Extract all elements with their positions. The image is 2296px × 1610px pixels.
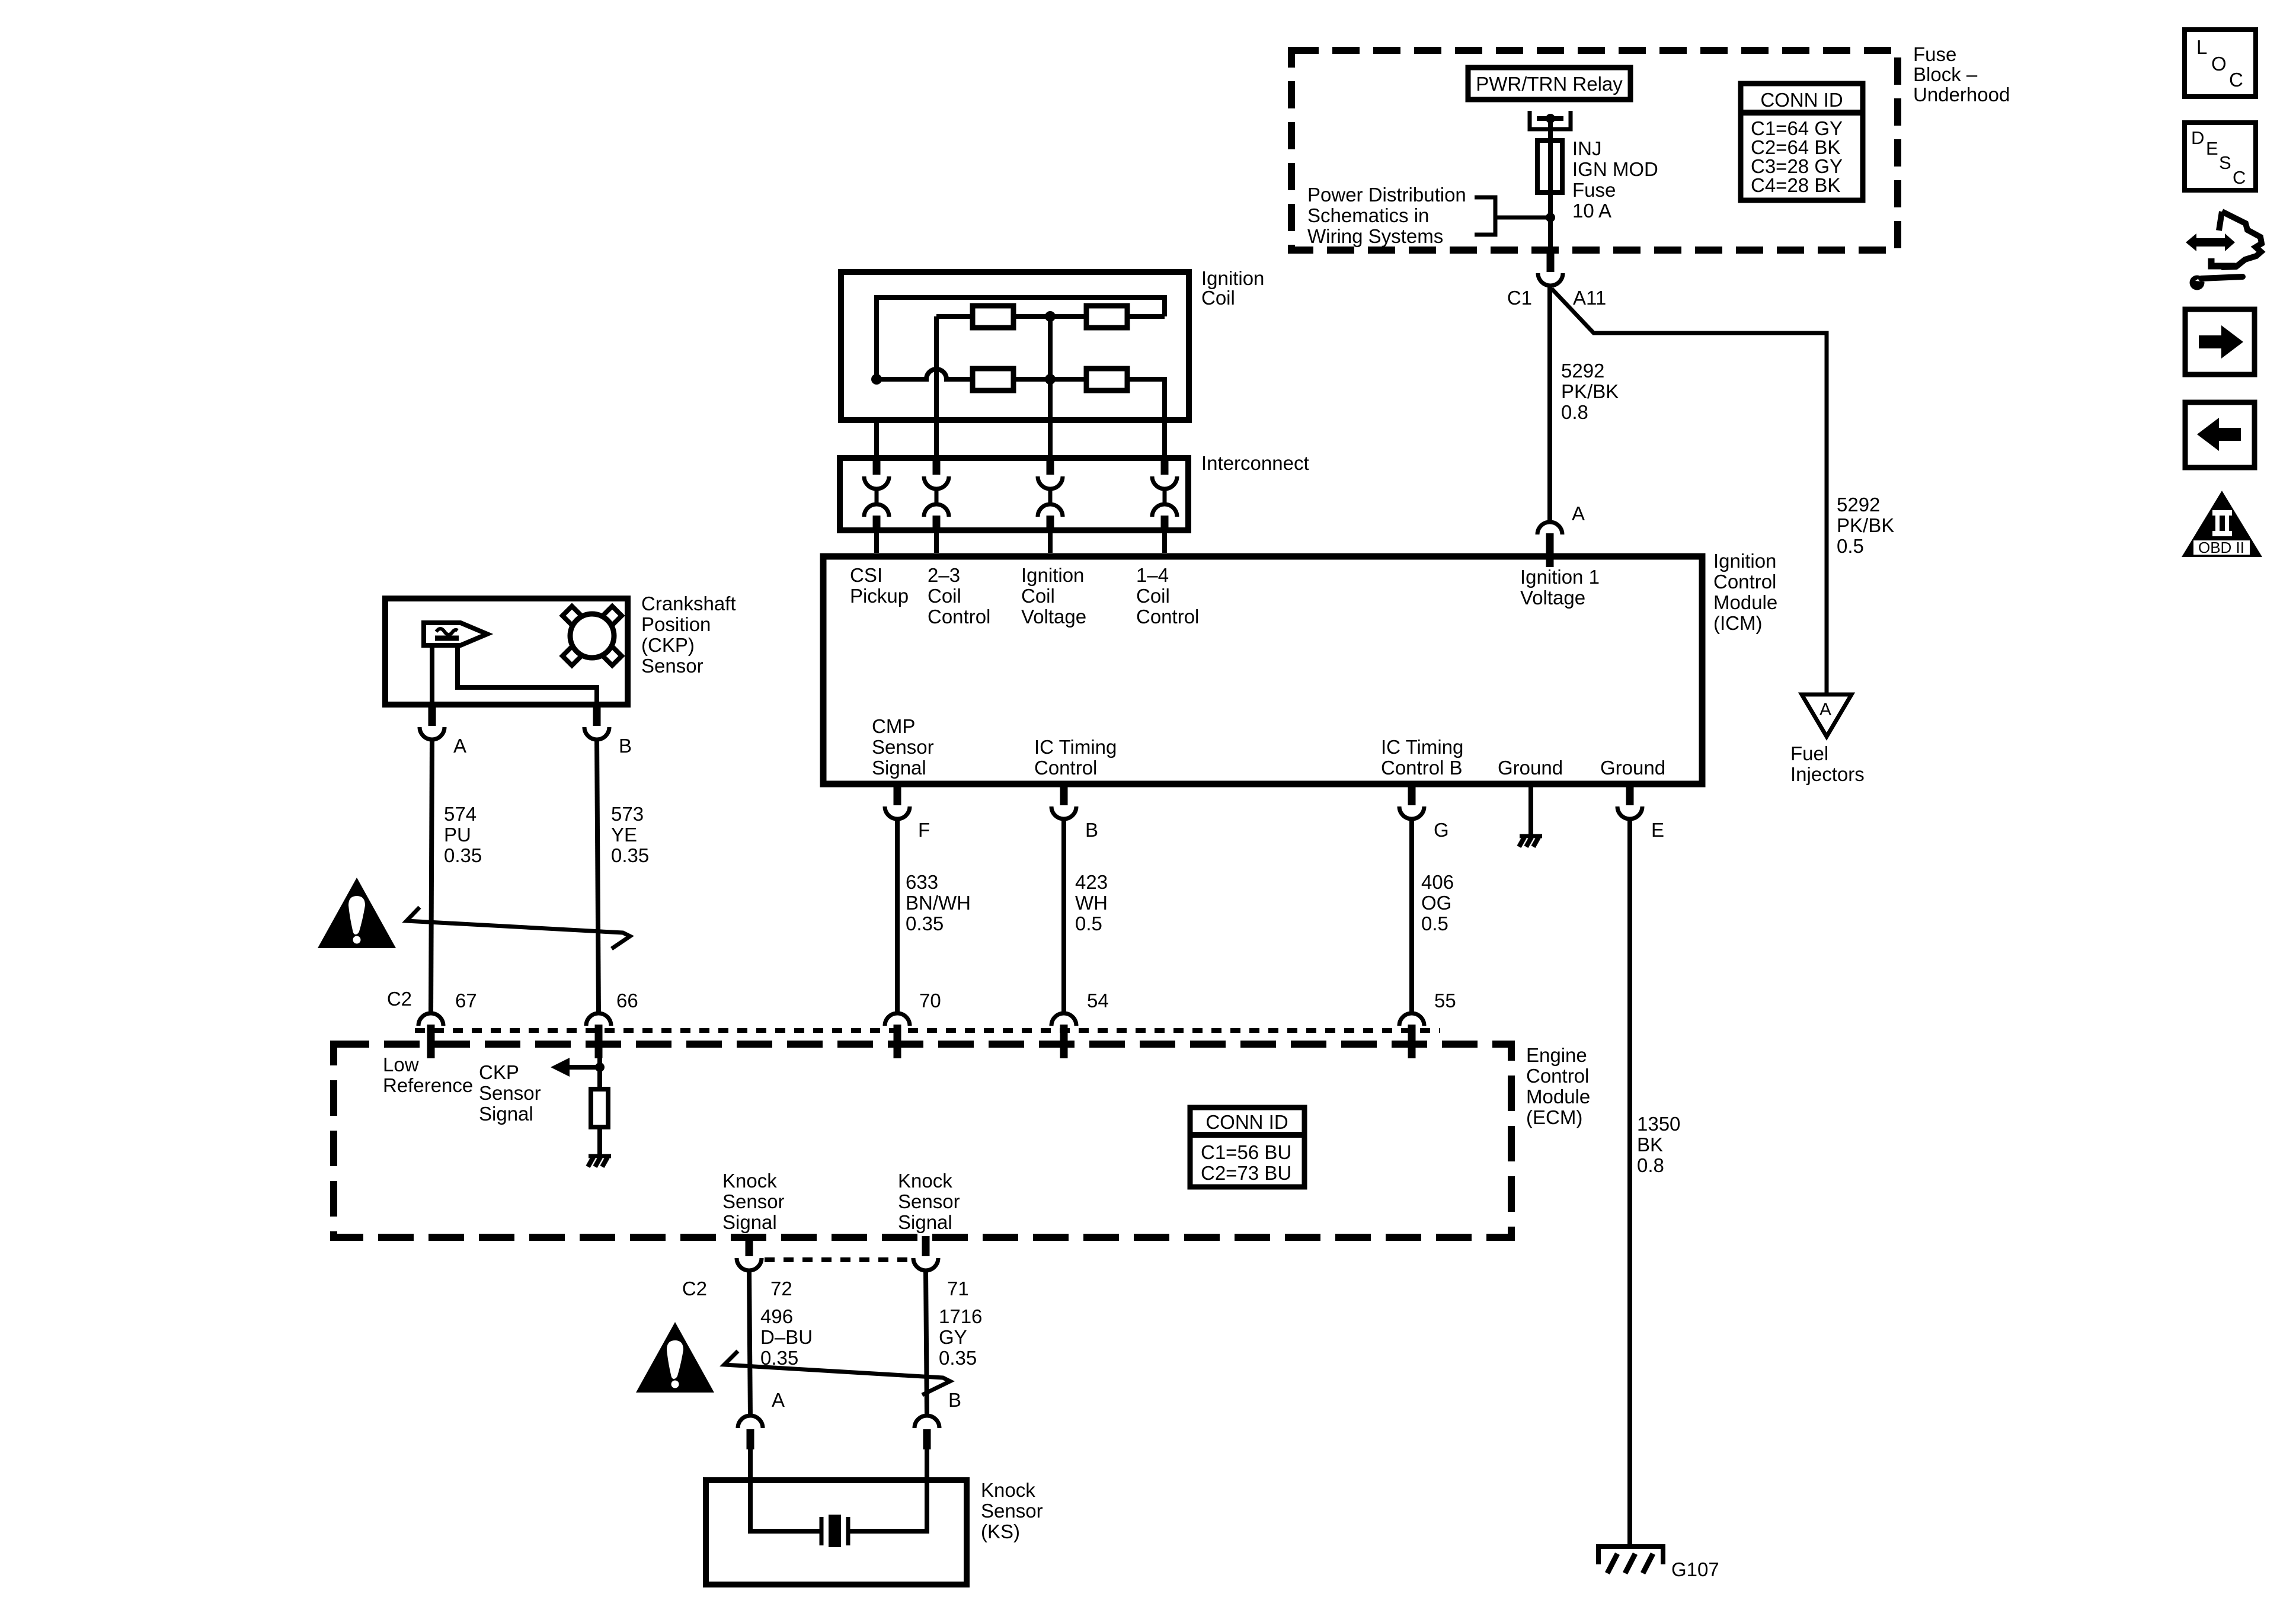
connector ECM pin 71 — [922, 1236, 930, 1256]
svg-text:Signal: Signal — [898, 1211, 952, 1233]
svg-text:C2: C2 — [387, 988, 412, 1010]
svg-text:A: A — [1819, 700, 1831, 719]
ignition control module ICM box — [823, 556, 1702, 784]
CKP internal wires — [430, 645, 434, 702]
svg-text:Control: Control — [1526, 1065, 1589, 1087]
crankshaft position CKP sensor box — [385, 598, 628, 705]
svg-text:0.5: 0.5 — [1075, 913, 1102, 934]
svg-text:G: G — [1434, 819, 1449, 841]
svg-text:B: B — [619, 735, 632, 757]
svg-text:S: S — [2219, 152, 2231, 173]
wire 1716 GY 0.35 — [926, 1270, 927, 1417]
connector ECM pin 70 — [885, 1013, 910, 1026]
svg-text:A: A — [772, 1389, 785, 1411]
relay K contact terminal — [1530, 111, 1571, 142]
wire interconnect to ICM x=1772 — [1048, 529, 1053, 553]
svg-text:Knock: Knock — [898, 1170, 952, 1192]
node fuse output junction — [1546, 213, 1555, 222]
icon service wrench arrow — [2186, 212, 2262, 290]
svg-text:Power Distribution: Power Distribution — [1307, 184, 1466, 206]
svg-text:D–BU: D–BU — [760, 1326, 813, 1348]
resistor coil 1-4 primary — [1086, 306, 1127, 328]
svg-text:Ground: Ground — [1498, 757, 1563, 779]
resistor coil 2-3 primary — [973, 306, 1013, 328]
connector pin B below ICM — [1060, 786, 1068, 805]
svg-text:0.5: 0.5 — [1837, 535, 1864, 557]
svg-text:Sensor: Sensor — [722, 1190, 785, 1212]
svg-text:IC Timing: IC Timing — [1381, 736, 1463, 758]
engine control module ECM dashed box — [334, 1044, 1511, 1237]
svg-text:423: 423 — [1075, 871, 1108, 893]
resistor coil secondary left — [973, 369, 1013, 391]
warning note triangle knock circuit — [636, 1322, 714, 1393]
svg-text:Fuse: Fuse — [1572, 179, 1616, 201]
svg-text:Control: Control — [1034, 757, 1097, 779]
svg-text:Fuse: Fuse — [1913, 43, 1956, 65]
svg-text:5292: 5292 — [1837, 494, 1880, 516]
node ECM ckp junction — [595, 1062, 605, 1072]
svg-text:Interconnect: Interconnect — [1201, 452, 1309, 474]
twisted pair slash CKP wires — [407, 907, 630, 949]
interconnect connector pair x=1479 — [873, 461, 881, 475]
icon arrow left box — [2185, 402, 2255, 468]
svg-text:A11: A11 — [1573, 287, 1606, 309]
ECM pullup resistor — [597, 1044, 602, 1089]
twisted pair slash knock wires — [724, 1351, 950, 1395]
svg-text:Signal: Signal — [479, 1103, 533, 1125]
svg-text:5292: 5292 — [1561, 360, 1604, 382]
wire 1350 BK 0.8 ground to G107 — [1627, 819, 1632, 1547]
connector pin A below CKP — [428, 706, 436, 726]
ignition coil box — [841, 272, 1189, 420]
connector pin B below CKP — [593, 706, 601, 726]
wire coil to interconnect x=1479 — [874, 420, 879, 463]
chassis ground at ICM — [1520, 834, 1542, 838]
svg-text:Underhood: Underhood — [1913, 84, 2010, 105]
svg-text:CONN ID: CONN ID — [1760, 89, 1843, 111]
ground G107 — [1598, 1547, 1663, 1573]
wire coil to interconnect x=1580 — [934, 316, 939, 463]
svg-text:YE: YE — [611, 824, 637, 846]
svg-text:CONN ID: CONN ID — [1205, 1111, 1288, 1133]
CKP sensor signal arrow — [551, 1058, 600, 1077]
svg-text:406: 406 — [1421, 871, 1454, 893]
svg-text:Knock: Knock — [981, 1479, 1035, 1501]
svg-text:PK/BK: PK/BK — [1561, 380, 1619, 402]
svg-text:573: 573 — [611, 803, 644, 825]
svg-text:Coil: Coil — [1136, 585, 1170, 607]
svg-text:Injectors: Injectors — [1790, 763, 1865, 785]
svg-text:OG: OG — [1421, 892, 1451, 914]
svg-text:0.8: 0.8 — [1637, 1154, 1664, 1176]
wire coil to interconnect x=1772 — [1048, 379, 1053, 463]
svg-text:Ground: Ground — [1600, 757, 1665, 779]
svg-text:Control: Control — [1713, 571, 1776, 593]
svg-text:Sensor: Sensor — [981, 1500, 1043, 1522]
svg-text:Pickup: Pickup — [850, 585, 909, 607]
svg-text:0.35: 0.35 — [906, 913, 944, 934]
svg-text:OBD II: OBD II — [2198, 539, 2244, 556]
svg-text:Low: Low — [383, 1054, 419, 1076]
svg-text:C: C — [2229, 69, 2243, 91]
wire branch to fuel injectors 5292 PK/BK 0.5 — [1552, 289, 1827, 696]
svg-text:Coil: Coil — [1201, 287, 1235, 309]
CONN ID table ECM — [1188, 1108, 1307, 1187]
svg-text:INJ: INJ — [1572, 137, 1602, 159]
icon LOC box — [2185, 30, 2256, 97]
svg-text:L: L — [2196, 36, 2207, 58]
wire 573 YE 0.35 — [597, 738, 599, 1014]
connector pin F below ICM — [894, 786, 901, 805]
svg-text:A: A — [453, 735, 466, 757]
resistor coil secondary right — [1086, 369, 1127, 391]
svg-text:D: D — [2191, 127, 2204, 148]
svg-text:(ECM): (ECM) — [1526, 1106, 1582, 1128]
svg-text:E: E — [1651, 819, 1664, 841]
svg-text:72: 72 — [770, 1278, 792, 1299]
warning note triangle CKP circuit — [318, 878, 396, 948]
PWR/TRN Relay box — [1468, 68, 1630, 100]
svg-text:C1=56 BU: C1=56 BU — [1201, 1141, 1291, 1163]
svg-text:IGN MOD: IGN MOD — [1572, 158, 1658, 180]
svg-text:IC Timing: IC Timing — [1034, 736, 1117, 758]
svg-text:54: 54 — [1087, 990, 1109, 1012]
icon DESC box — [2185, 123, 2256, 190]
connector ECM pin 67 — [418, 1013, 443, 1026]
svg-text:1–4: 1–4 — [1136, 564, 1169, 586]
svg-text:C2=73 BU: C2=73 BU — [1201, 1162, 1291, 1184]
wire coil to interconnect x=1965 — [1162, 379, 1167, 463]
wire 496 D-BU 0.35 — [749, 1270, 750, 1417]
svg-text:(CKP): (CKP) — [641, 634, 695, 656]
svg-text:1350: 1350 — [1637, 1113, 1680, 1135]
svg-text:BN/WH: BN/WH — [906, 892, 971, 914]
icon OBD II triangle — [2182, 491, 2262, 557]
svg-text:Voltage: Voltage — [1520, 587, 1585, 609]
svg-text:Sensor: Sensor — [641, 655, 703, 677]
svg-text:PU: PU — [444, 824, 471, 846]
svg-text:0.8: 0.8 — [1561, 401, 1588, 423]
svg-text:Ignition 1: Ignition 1 — [1520, 566, 1600, 588]
interconnect connector pair x=1772 — [1047, 461, 1054, 475]
fuse INJ IGN MOD 10A — [1537, 140, 1562, 217]
svg-text:0.5: 0.5 — [1421, 913, 1448, 934]
svg-text:Signal: Signal — [722, 1211, 777, 1233]
wire 423 WH IC timing control — [1061, 819, 1066, 1014]
off-page reference bracket to power distribution — [1475, 197, 1550, 235]
interconnect box — [840, 458, 1188, 530]
svg-text:Sensor: Sensor — [872, 736, 934, 758]
svg-text:Schematics in: Schematics in — [1307, 204, 1429, 226]
svg-text:Voltage: Voltage — [1021, 606, 1086, 628]
wire interconnect to ICM x=1580 — [934, 529, 939, 553]
svg-text:10 A: 10 A — [1572, 200, 1611, 222]
svg-text:Sensor: Sensor — [479, 1082, 541, 1104]
CKP pickup flag symbol — [424, 623, 487, 645]
svg-text:CSI: CSI — [850, 564, 882, 586]
svg-text:BK: BK — [1637, 1134, 1663, 1156]
svg-text:(ICM): (ICM) — [1713, 612, 1762, 634]
CONN ID table fuse block — [1738, 84, 1865, 200]
node coil row2 mid junction — [1045, 374, 1056, 385]
connector ECM pin 66 — [586, 1013, 611, 1026]
svg-text:C1: C1 — [1507, 287, 1532, 309]
svg-text:CMP: CMP — [872, 715, 915, 737]
svg-text:66: 66 — [616, 990, 638, 1012]
svg-text:Wiring Systems: Wiring Systems — [1307, 225, 1443, 247]
svg-text:Knock: Knock — [722, 1170, 777, 1192]
svg-text:0.35: 0.35 — [939, 1347, 977, 1369]
wire interconnect to ICM x=1479 — [874, 529, 879, 553]
node coil row1 junction — [1045, 311, 1056, 322]
svg-text:Ignition: Ignition — [1201, 267, 1264, 289]
svg-text:633: 633 — [906, 871, 938, 893]
svg-text:PK/BK: PK/BK — [1837, 514, 1894, 536]
svg-text:Module: Module — [1526, 1086, 1590, 1108]
ECM connector dashed interface line — [415, 1028, 1440, 1033]
svg-text:1716: 1716 — [939, 1305, 982, 1327]
svg-text:A: A — [1572, 502, 1585, 524]
svg-text:WH: WH — [1075, 892, 1108, 914]
svg-text:B: B — [948, 1389, 961, 1411]
connector ECM pin 54 — [1051, 1013, 1076, 1026]
svg-text:496: 496 — [760, 1305, 793, 1327]
coil center tap vertical — [1048, 316, 1053, 379]
svg-text:GY: GY — [939, 1326, 967, 1348]
svg-text:71: 71 — [947, 1278, 969, 1299]
svg-text:Sensor: Sensor — [898, 1190, 960, 1212]
wire interconnect to ICM x=1965 — [1162, 529, 1167, 553]
wire 574 PU 0.35 — [431, 738, 432, 1014]
connector ECM pin 55 — [1399, 1013, 1424, 1026]
connector ECM pin 72 — [746, 1236, 753, 1256]
svg-text:2–3: 2–3 — [928, 564, 960, 586]
svg-text:574: 574 — [444, 803, 477, 825]
wire 406 OG IC timing control B — [1409, 819, 1414, 1014]
knock connector dotted line — [765, 1257, 913, 1262]
svg-text:O: O — [2211, 53, 2227, 75]
knock sensor KS box — [706, 1480, 967, 1585]
chassis ground inside ECM — [589, 1154, 611, 1158]
svg-text:67: 67 — [455, 990, 477, 1012]
svg-text:Control: Control — [1136, 606, 1199, 628]
CKP reluctor ring symbol — [570, 614, 614, 658]
svg-text:C4=28 BK: C4=28 BK — [1751, 174, 1840, 196]
svg-text:Module: Module — [1713, 591, 1777, 613]
icon arrow right box — [2185, 309, 2255, 375]
fuse block underhood dashed box — [1291, 50, 1898, 250]
svg-text:E: E — [2206, 138, 2218, 159]
svg-text:Crankshaft: Crankshaft — [641, 593, 736, 614]
svg-text:Ignition: Ignition — [1713, 550, 1776, 572]
svg-text:70: 70 — [919, 990, 941, 1012]
svg-text:Signal: Signal — [872, 757, 926, 779]
svg-text:Block –: Block – — [1913, 63, 1978, 85]
svg-text:Control: Control — [928, 606, 990, 628]
connector pin E below ICM — [1626, 786, 1634, 805]
svg-text:C2: C2 — [682, 1278, 707, 1299]
wire from junction to C1 — [1548, 217, 1553, 254]
svg-text:C: C — [2233, 167, 2246, 188]
svg-text:0.35: 0.35 — [611, 844, 649, 866]
node coil row2 left junction — [871, 374, 882, 385]
interconnect connector pair x=1965 — [1161, 461, 1169, 475]
svg-text:Engine: Engine — [1526, 1044, 1587, 1066]
svg-text:F: F — [918, 819, 930, 841]
svg-text:Fuel: Fuel — [1790, 742, 1828, 764]
svg-text:(KS): (KS) — [981, 1521, 1020, 1542]
svg-text:CKP: CKP — [479, 1061, 519, 1083]
svg-text:Reference: Reference — [383, 1074, 473, 1096]
svg-text:B: B — [1085, 819, 1098, 841]
svg-text:G107: G107 — [1671, 1558, 1719, 1580]
svg-text:Coil: Coil — [928, 585, 961, 607]
svg-text:55: 55 — [1434, 990, 1456, 1012]
connector C1 pin A11 — [1547, 252, 1555, 272]
svg-text:Coil: Coil — [1021, 585, 1055, 607]
interconnect connector pair x=1580 — [933, 461, 941, 475]
svg-text:PWR/TRN Relay: PWR/TRN Relay — [1476, 73, 1623, 95]
svg-text:Position: Position — [641, 613, 711, 635]
knock sensor piezo element — [750, 1480, 821, 1531]
coil primary row 1 wires — [936, 314, 973, 319]
wire 633 BN/WH CMP sensor signal — [895, 819, 900, 1014]
svg-text:0.35: 0.35 — [444, 844, 482, 866]
svg-text:Control B: Control B — [1381, 757, 1463, 779]
fuel injectors off-page triangle A — [1802, 694, 1851, 737]
ICM ground pin wire to chassis ground — [1528, 787, 1533, 834]
svg-text:Ignition: Ignition — [1021, 564, 1084, 586]
coil internal winding bus — [877, 297, 1165, 379]
coil row 2 wire with hop over CSI line — [877, 369, 973, 379]
connector pin G below ICM — [1408, 786, 1416, 805]
wire 5292 PK/BK 0.8 — [1547, 287, 1552, 524]
